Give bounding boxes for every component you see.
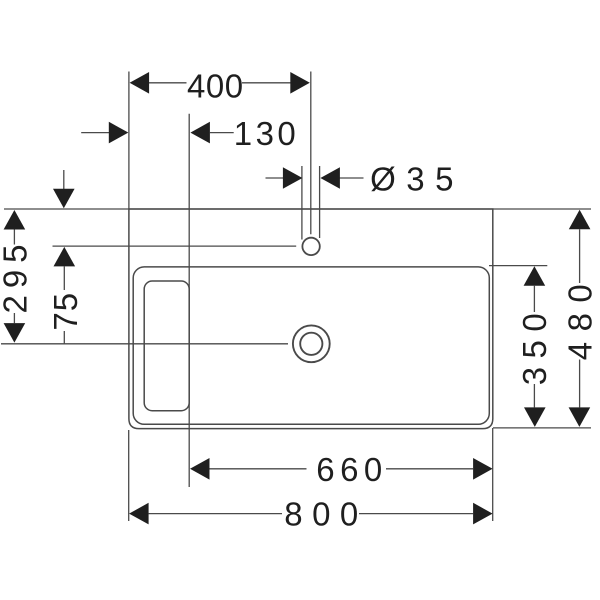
arrow 295 up	[4, 210, 26, 230]
dim line 130 right tail	[210, 132, 234, 134]
arrow 660 left	[190, 458, 210, 480]
svg-text:75: 75	[47, 292, 84, 331]
dim line 350 upper segment	[533, 286, 535, 312]
arrow 295 down	[4, 323, 26, 343]
arrow 75 pointing up	[54, 247, 76, 267]
dim line 660 right segment	[386, 468, 473, 470]
arrow 400 right	[290, 72, 310, 94]
basin outer outline	[129, 209, 493, 429]
dim line 400 left segment	[148, 82, 186, 84]
arrow 480 down	[569, 407, 591, 427]
extension line faucet axis vertical	[310, 72, 312, 235]
arrow 480 up	[569, 210, 591, 230]
dim line 350 lower segment	[533, 384, 535, 407]
dim line d35 right tail	[339, 177, 363, 179]
dim line 75 middle segment	[63, 266, 65, 290]
drain inner circle	[300, 333, 322, 355]
extension line faucet center horizontal	[53, 245, 297, 247]
left shelf outline	[144, 281, 189, 411]
svg-text:295: 295	[0, 237, 33, 313]
extension line bottom right horizontal	[493, 427, 591, 429]
extension line left edge vertical bottom	[128, 430, 130, 521]
svg-text:Ø35: Ø35	[370, 161, 464, 198]
arrow 130 outside left	[109, 122, 129, 144]
dim line 480 lower segment	[579, 360, 581, 408]
extension line drain center horizontal	[1, 343, 288, 345]
extension line 130/660 vertical	[188, 114, 190, 487]
arrow 350 down	[524, 407, 546, 427]
dim line 295 lower segment	[13, 313, 15, 323]
faucet hole circle	[302, 238, 319, 255]
svg-text:800: 800	[284, 495, 368, 532]
extension line left edge vertical top	[128, 72, 130, 210]
arrow 800 left	[129, 503, 149, 525]
dim line 75 lower segment	[63, 331, 65, 344]
extension line right edge vertical bottom	[492, 428, 494, 521]
extension line bowl top right horizontal	[489, 265, 547, 267]
dim line 400 right segment	[242, 82, 291, 84]
dim line 75 upper outside segment	[63, 170, 65, 190]
faucet hole tangent line right	[319, 166, 321, 238]
dim line 295 upper segment	[13, 230, 15, 245]
arrow 75 top pointing down	[53, 189, 75, 209]
extension line top edge horizontal	[4, 208, 591, 210]
svg-text:350: 350	[516, 305, 553, 386]
arrow d35 left	[283, 167, 303, 189]
arrow 800 right	[473, 503, 493, 525]
dim line 130 left tail	[81, 132, 110, 134]
arrow 400 left	[130, 72, 150, 94]
dim line d35 left tail	[266, 177, 285, 179]
faucet hole tangent line left	[301, 166, 303, 240]
basin bowl inner outline	[133, 267, 489, 424]
arrow 350 up	[524, 266, 546, 286]
dim line 660 left segment	[210, 468, 307, 470]
svg-text:130: 130	[234, 115, 300, 152]
dim line 800 right segment	[359, 513, 473, 515]
arrow 130 right	[190, 122, 210, 144]
svg-text:660: 660	[316, 451, 388, 488]
svg-text:480: 480	[562, 274, 599, 361]
drain outer circle	[293, 325, 330, 362]
arrow 660 right	[473, 458, 493, 480]
svg-text:400: 400	[187, 67, 244, 104]
dim line 480 upper segment	[579, 229, 581, 283]
dim line 800 left segment	[149, 513, 282, 515]
arrow d35 right	[320, 167, 340, 189]
